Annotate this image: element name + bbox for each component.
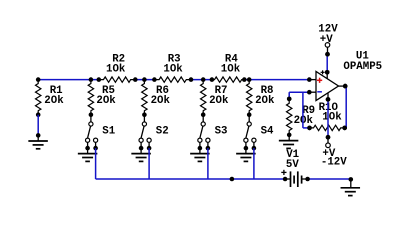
wire top rail segment node A to node B <box>38 79 99 81</box>
node bus segment junction <box>230 177 235 182</box>
ground below S1 <box>78 148 98 161</box>
resistor R1 20k <box>36 77 65 117</box>
ground below S4 <box>236 148 256 161</box>
wire top rail segment node C to node D <box>191 79 212 81</box>
wire op-amp V- pin to -12V <box>326 97 331 139</box>
resistor R8 20k <box>247 77 276 117</box>
op-amp U1 OPAMP5 <box>316 50 382 101</box>
resistor R4 10k <box>210 54 247 83</box>
resistor R10 10k <box>307 102 347 131</box>
node bus right ground junction <box>349 177 354 182</box>
switch S2 <box>139 115 169 151</box>
svg-text:1Ok: 1Ok <box>106 63 126 75</box>
wire S3 to bottom bus <box>207 148 209 179</box>
wire R1 bottom to ground <box>37 115 39 136</box>
svg-text:-12V: -12V <box>321 156 347 168</box>
svg-text:S1: S1 <box>102 125 115 137</box>
svg-text:2Ok: 2Ok <box>44 95 64 107</box>
wire op-amp noninverting input pin <box>307 77 316 82</box>
wire op-amp V+ pin to +12V <box>325 52 330 75</box>
svg-text:5V: 5V <box>286 159 299 171</box>
ground below R9 <box>279 135 299 149</box>
switch S3 <box>198 115 228 151</box>
wire inverting input net <box>287 92 312 130</box>
svg-text:+V: +V <box>320 34 333 46</box>
svg-text:2Ok: 2Ok <box>209 95 229 107</box>
svg-text:S2: S2 <box>156 125 169 137</box>
wire op-amp output to feedback <box>342 84 347 130</box>
resistor R7 20k <box>201 77 230 117</box>
svg-text:OPAMP5: OPAMP5 <box>343 61 382 73</box>
ground below R1 <box>28 135 47 148</box>
wire S2 to bottom bus <box>148 148 150 179</box>
switch S4 <box>244 115 274 151</box>
ground below S2 <box>131 148 151 161</box>
svg-text:1Ok: 1Ok <box>322 111 342 123</box>
wire S1 to bottom bus <box>95 148 97 179</box>
svg-text:1Ok: 1Ok <box>163 63 183 75</box>
svg-text:S4: S4 <box>261 125 274 137</box>
battery V1 5V <box>281 149 310 187</box>
wire S4 to bottom bus <box>253 148 255 179</box>
ground bottom right <box>341 179 361 195</box>
svg-text:2Ok: 2Ok <box>96 95 116 107</box>
wire op-amp inverting input pin <box>307 90 316 95</box>
svg-text:S3: S3 <box>215 125 228 137</box>
wire bottom bus right section <box>308 178 351 180</box>
svg-text:2Ok: 2Ok <box>151 95 171 107</box>
resistor R6 20k <box>142 77 171 117</box>
svg-text:1Ok: 1Ok <box>221 63 241 75</box>
power +12V symbol <box>318 24 338 57</box>
resistor R2 10k <box>97 54 138 83</box>
switch S1 <box>85 115 115 151</box>
resistor R9 20k <box>287 97 316 138</box>
wire bottom bus left section <box>96 178 286 180</box>
resistor R3 10k <box>152 54 193 83</box>
resistor R5 20k <box>88 77 116 117</box>
wire top rail segment node B to node C <box>135 79 154 81</box>
wire top rail segment node D to op-amp noninverting input <box>244 79 309 81</box>
node R1 ground pin <box>36 133 41 138</box>
ground below S3 <box>190 148 210 161</box>
power -12V symbol <box>321 135 347 168</box>
svg-text:2Ok: 2Ok <box>255 95 275 107</box>
